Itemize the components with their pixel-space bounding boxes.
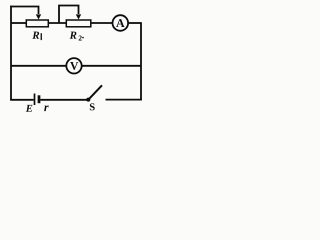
switch S blade [89,85,102,99]
label R1 [32,32,39,39]
battery E short plate [38,95,41,103]
label r [44,105,49,111]
label E [26,105,33,112]
ammeter letter A [116,19,124,27]
speck after R2 label [82,37,84,39]
background [0,0,147,115]
resistor R1 box [26,20,48,27]
wire: voltmeter left [11,65,66,67]
wire: top main left segment [11,22,27,24]
wire: R1 to R2 segment [48,22,66,24]
wire: battery to switch [40,99,87,101]
wire: voltmeter right [82,65,141,67]
label R2 [70,32,77,39]
wire: R1 top bridge [10,7,38,15]
wire: left vertical [10,6,12,101]
wire: R2 to ammeter [91,22,113,24]
battery E long plate [34,94,36,106]
voltmeter letter V [70,62,78,70]
voltmeter V circle [66,58,81,73]
resistor R2 wiper arrow [76,14,81,19]
switch S pivot dot [86,98,90,102]
resistor R1 wiper arrow [36,14,41,19]
wire: right vertical [140,22,142,100]
wire: bottom left to battery [10,99,33,101]
wire: switch to right corner [106,99,142,101]
ammeter A circle [113,15,129,31]
label S [90,103,95,110]
wire: R2 bridge riser [59,6,79,24]
resistor R2 box [66,20,91,27]
wire: ammeter to right corner [128,22,141,24]
